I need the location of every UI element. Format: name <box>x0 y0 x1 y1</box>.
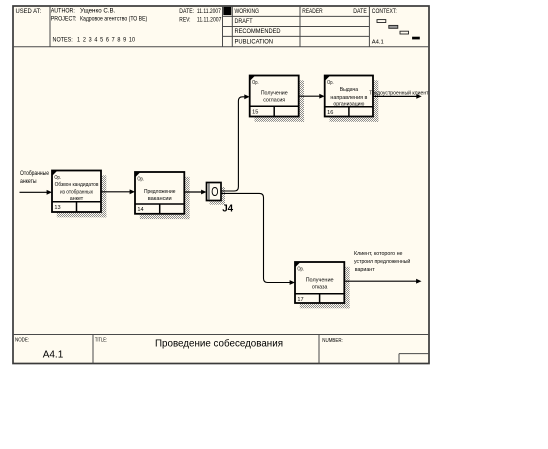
svg-text:Ущенко С.В.: Ущенко С.В. <box>80 7 116 14</box>
svg-text:17: 17 <box>297 297 303 303</box>
svg-text:DATE: DATE <box>353 8 367 15</box>
svg-text:вариант: вариант <box>355 267 375 273</box>
svg-text:CONTEXT:: CONTEXT: <box>372 8 397 15</box>
svg-text:REV:: REV: <box>179 17 190 24</box>
svg-text:AUTHOR:: AUTHOR: <box>51 7 75 14</box>
svg-text:NUMBER:: NUMBER: <box>322 338 343 344</box>
svg-text:WORKING: WORKING <box>235 8 260 15</box>
label: Otobrannye ankety <box>20 170 49 185</box>
svg-text:14: 14 <box>137 207 143 213</box>
svg-text:Получение: Получение <box>306 278 335 284</box>
arrow: box 16 -> out (trudoustroennyj klient) <box>373 94 422 99</box>
arrow: box 17 -> out (klient otkaz) <box>344 279 421 284</box>
svg-text:отказа: отказа <box>312 285 328 291</box>
activity box 14 shadow <box>140 177 190 219</box>
svg-text:TITLE:: TITLE: <box>95 337 108 343</box>
svg-text:согласия: согласия <box>263 98 285 104</box>
activity box 16 <box>325 76 373 117</box>
label: Klient kotorogo ne ustroil <box>354 251 410 273</box>
svg-text:Ор.: Ор. <box>137 176 144 182</box>
svg-text:Выдача: Выдача <box>340 87 359 93</box>
header checkbox (working, filled) <box>223 7 231 15</box>
activity box 13 <box>52 171 101 213</box>
svg-text:из отобранных: из отобранных <box>60 189 93 195</box>
junction J4 box <box>207 183 222 201</box>
arrow: box 13 -> box 14 <box>101 189 135 194</box>
arrow: junction J4 -> box 15 (up branch) <box>221 94 250 191</box>
activity box 17 shadow <box>300 267 350 309</box>
svg-text:Трудоустроенный клиент: Трудоустроенный клиент <box>369 89 429 96</box>
arrow: box 14 -> junction J4 <box>184 190 206 195</box>
activity box 13 shadow <box>57 175 107 217</box>
svg-text:13: 13 <box>54 205 60 211</box>
svg-text:направления в: направления в <box>330 95 367 101</box>
svg-text:вакансии: вакансии <box>148 196 172 202</box>
svg-text:NOTES: 1 2 3 4 5 6 7 8 9 10: NOTES: 1 2 3 4 5 6 7 8 9 10 <box>53 37 136 44</box>
svg-text:READER: READER <box>302 8 323 15</box>
sheet background <box>13 6 429 364</box>
svg-text:Получение: Получение <box>261 90 289 96</box>
svg-text:DATE:: DATE: <box>179 8 194 15</box>
svg-text:11.11.2007: 11.11.2007 <box>197 8 221 15</box>
svg-text:Ор.: Ор. <box>252 80 259 86</box>
svg-text:Ор.: Ор. <box>327 80 334 86</box>
footer grid lines <box>13 335 429 364</box>
arrow: junction J4 -> box 17 (down branch) <box>221 193 295 285</box>
activity box 16 shadow <box>330 80 379 122</box>
svg-text:Ор.: Ор. <box>297 266 304 272</box>
svg-text:16: 16 <box>327 110 333 116</box>
svg-text:11.11.2007: 11.11.2007 <box>197 17 222 24</box>
header left texts <box>16 7 222 43</box>
svg-text:устроил предложенный: устроил предложенный <box>354 258 410 265</box>
activity box 17 <box>295 262 344 303</box>
context thumbnail boxes <box>377 20 409 34</box>
arrow: box 15 -> box 16 <box>299 94 325 99</box>
svg-text:USED AT:: USED AT: <box>16 8 42 15</box>
svg-text:A4.1: A4.1 <box>372 40 384 46</box>
svg-text:O: O <box>211 184 218 199</box>
svg-text:15: 15 <box>252 109 258 115</box>
header status texts <box>235 8 398 46</box>
svg-text:DRAFT: DRAFT <box>235 18 253 25</box>
svg-text:PROJECT:: PROJECT: <box>51 16 77 23</box>
activity box 14 <box>135 172 184 214</box>
svg-text:PUBLICATION: PUBLICATION <box>235 39 274 46</box>
svg-text:Кадровое агентство (ТО ВЕ): Кадровое агентство (ТО ВЕ) <box>80 16 147 23</box>
activity box 15 <box>250 76 299 117</box>
svg-text:Обзвон кандидатов: Обзвон кандидатов <box>55 182 99 188</box>
svg-text:Предложение: Предложение <box>144 189 176 195</box>
svg-text:анкет: анкет <box>70 196 84 202</box>
svg-text:Ор.: Ор. <box>54 175 61 181</box>
footer labels <box>15 337 343 344</box>
svg-text:NODE:: NODE: <box>15 337 29 343</box>
activity box 15 shadow <box>255 80 305 122</box>
svg-text:RECOMMENDED: RECOMMENDED <box>235 28 282 35</box>
svg-text:J4: J4 <box>222 204 233 215</box>
svg-text:A4.1: A4.1 <box>43 350 64 361</box>
svg-text:Проведение собеседования: Проведение собеседования <box>155 339 283 350</box>
svg-text:анкеты: анкеты <box>20 178 37 185</box>
header grid lines <box>13 6 429 47</box>
arrow: Otobrannye ankety -> box 13 <box>20 190 53 195</box>
svg-text:Клиент, которого не: Клиент, которого не <box>354 251 403 257</box>
junction J4 shadow <box>210 187 226 205</box>
svg-text:организацию: организацию <box>333 101 365 107</box>
svg-text:Отобранные: Отобранные <box>20 170 49 177</box>
